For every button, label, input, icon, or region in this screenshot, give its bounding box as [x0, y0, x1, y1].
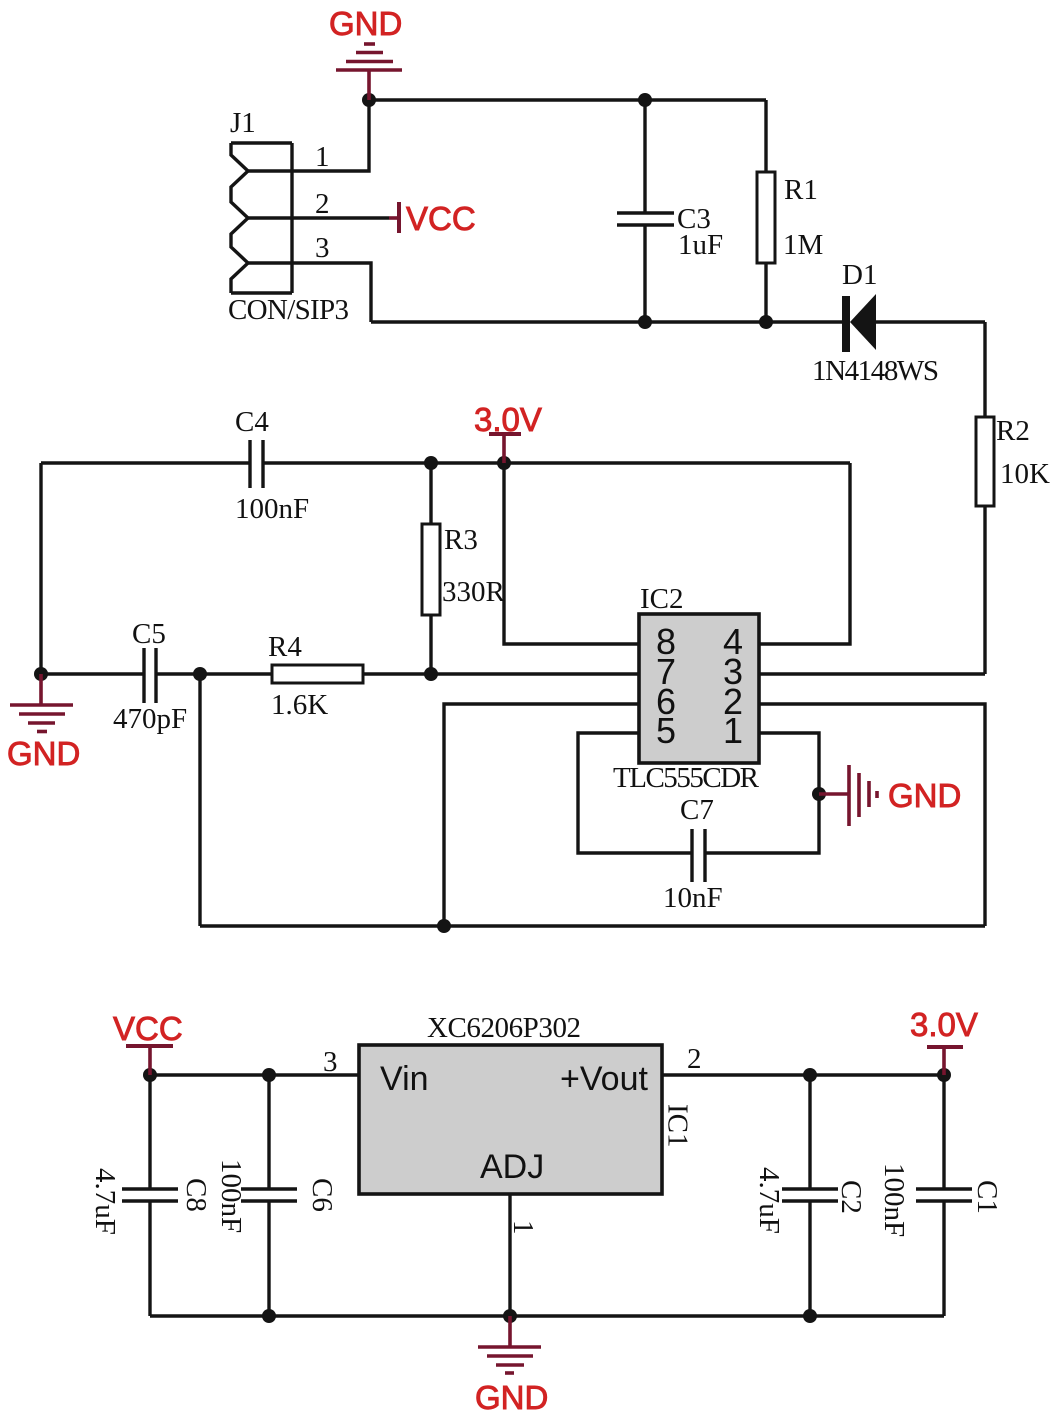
svg-text:R3: R3	[444, 524, 478, 556]
svg-text:R1: R1	[784, 174, 818, 206]
svg-text:ADJ: ADJ	[480, 1148, 544, 1186]
svg-text:R4: R4	[268, 631, 302, 663]
svg-text:TLC555CDR: TLC555CDR	[613, 762, 760, 794]
svg-text:VCC: VCC	[113, 1010, 183, 1047]
svg-text:VCC: VCC	[406, 200, 476, 237]
svg-text:4.7uF: 4.7uF	[753, 1167, 785, 1234]
svg-text:1N4148WS: 1N4148WS	[812, 355, 939, 387]
svg-text:XC6206P302: XC6206P302	[427, 1012, 581, 1044]
svg-text:10K: 10K	[1000, 458, 1050, 490]
svg-text:1M: 1M	[783, 229, 823, 261]
svg-text:Vin: Vin	[380, 1060, 429, 1098]
svg-text:GND: GND	[475, 1379, 548, 1416]
svg-text:C1: C1	[971, 1180, 1003, 1214]
svg-text:GND: GND	[329, 5, 402, 42]
svg-text:CON/SIP3: CON/SIP3	[228, 294, 349, 326]
svg-text:1uF: 1uF	[678, 229, 723, 261]
svg-text:1.6K: 1.6K	[271, 689, 328, 721]
svg-text:J1: J1	[230, 107, 256, 139]
svg-text:330R: 330R	[442, 576, 506, 608]
svg-text:GND: GND	[888, 777, 961, 814]
svg-text:100nF: 100nF	[235, 493, 309, 525]
svg-text:R2: R2	[996, 415, 1030, 447]
svg-text:3.0V: 3.0V	[474, 401, 542, 438]
svg-text:2: 2	[315, 188, 330, 220]
svg-text:GND: GND	[7, 735, 80, 772]
svg-text:C4: C4	[235, 406, 269, 438]
svg-text:IC2: IC2	[640, 583, 684, 615]
svg-text:IC1: IC1	[662, 1104, 694, 1148]
svg-text:100nF: 100nF	[878, 1163, 910, 1237]
svg-text:3.0V: 3.0V	[910, 1006, 978, 1043]
svg-text:4.7uF: 4.7uF	[89, 1168, 121, 1235]
svg-text:C5: C5	[132, 618, 166, 650]
svg-text:C6: C6	[306, 1178, 338, 1212]
svg-text:1: 1	[507, 1220, 539, 1235]
svg-text:10nF: 10nF	[663, 882, 723, 914]
svg-text:C7: C7	[680, 794, 714, 826]
svg-text:2: 2	[687, 1043, 702, 1075]
svg-text:D1: D1	[842, 259, 877, 291]
svg-text:C8: C8	[180, 1178, 212, 1212]
svg-text:3: 3	[315, 232, 330, 264]
svg-text:+Vout: +Vout	[560, 1060, 648, 1098]
svg-text:3: 3	[323, 1046, 338, 1078]
svg-text:1: 1	[315, 141, 330, 173]
svg-text:1: 1	[723, 710, 743, 751]
svg-text:470pF: 470pF	[113, 703, 187, 735]
svg-text:100nF: 100nF	[215, 1159, 247, 1233]
svg-text:C2: C2	[835, 1180, 867, 1214]
svg-text:5: 5	[656, 710, 676, 751]
